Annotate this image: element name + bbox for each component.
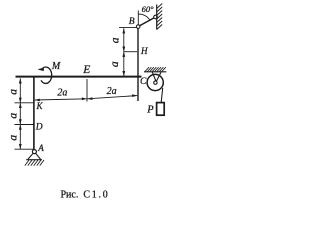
pin circle B — [136, 25, 140, 29]
svg-text:a: a — [109, 37, 121, 43]
svg-text:D: D — [35, 122, 43, 132]
svg-text:P: P — [146, 105, 154, 116]
rod B-wall — [140, 18, 155, 26]
tick below E — [86, 79, 88, 102]
wall hatching — [157, 4, 163, 30]
pin support A circle — [32, 150, 36, 154]
pulley C outer circle — [147, 74, 163, 90]
moment M arc — [41, 67, 52, 83]
pulley ceiling line — [144, 71, 166, 73]
pulley axle — [154, 81, 157, 84]
svg-text:a: a — [8, 135, 20, 141]
svg-text:K: K — [36, 101, 44, 111]
svg-text:B: B — [129, 17, 135, 27]
svg-text:60°: 60° — [142, 4, 155, 14]
ceiling hatching — [145, 67, 166, 71]
left column A-K (vertical member) — [33, 76, 35, 150]
support A hatching — [25, 160, 44, 166]
svg-text:A: A — [37, 143, 44, 153]
svg-text:a: a — [8, 89, 20, 95]
wall line top right — [156, 5, 158, 30]
svg-text:C: C — [140, 77, 147, 87]
weight P box — [157, 103, 165, 116]
rope from pulley to weight — [161, 88, 163, 104]
svg-text:E: E — [82, 64, 90, 76]
angle arc 60 — [138, 14, 150, 21]
right dimension line x=123.8 — [119, 28, 137, 77]
svg-text:M: M — [51, 61, 61, 72]
svg-text:a: a — [109, 61, 121, 67]
svg-text:H: H — [140, 46, 148, 56]
beam (horizontal member with left extension) — [16, 76, 142, 78]
pulley bracket — [152, 72, 161, 81]
right column B to C extension — [137, 28, 139, 101]
svg-text:Рис.: Рис. — [61, 189, 79, 200]
svg-text:a: a — [8, 113, 20, 119]
wall pin circle — [154, 15, 158, 19]
svg-text:С1.0: С1.0 — [83, 189, 109, 200]
svg-text:2a: 2a — [107, 86, 117, 97]
svg-text:2a: 2a — [57, 88, 67, 99]
2a dimension line — [35, 96, 137, 100]
left dimension line x=20.3 — [15, 78, 34, 149]
pin support A triangle — [28, 153, 41, 159]
vertical reference line above B — [137, 11, 139, 25]
